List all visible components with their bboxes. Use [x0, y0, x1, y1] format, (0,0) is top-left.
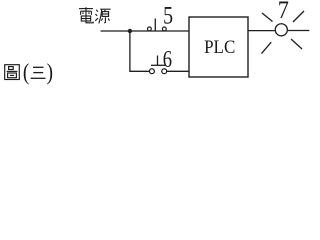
svg-text:5: 5 — [163, 1, 173, 29]
svg-text:(: ( — [23, 59, 29, 85]
svg-text:6: 6 — [163, 46, 172, 73]
svg-text:): ) — [47, 59, 53, 85]
svg-text:7: 7 — [278, 0, 289, 24]
svg-text:PLC: PLC — [204, 36, 235, 57]
